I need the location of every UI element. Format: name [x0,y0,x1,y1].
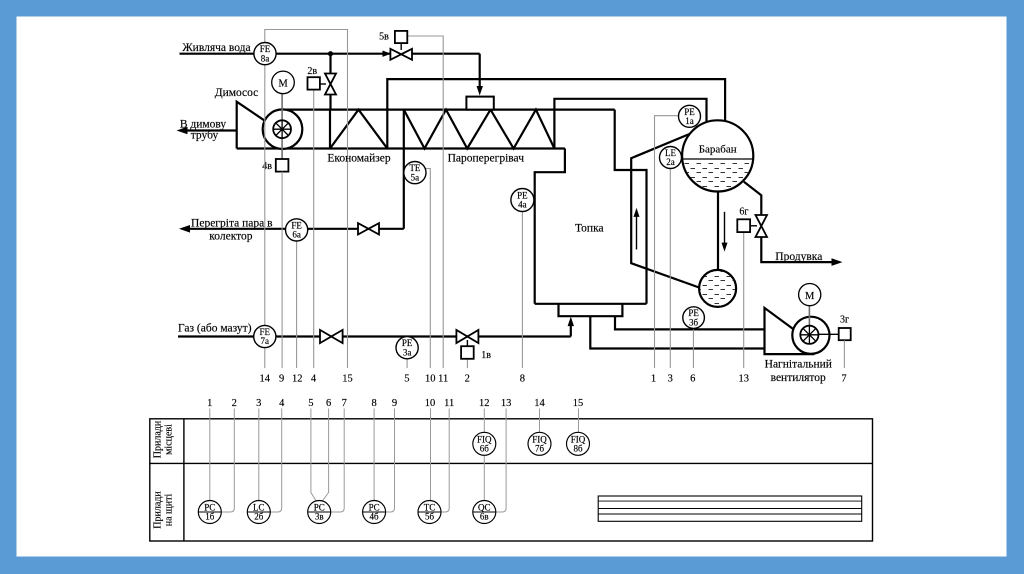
svg-text:4: 4 [311,374,317,385]
svg-text:Пароперегрівач: Пароперегрівач [448,153,525,165]
pipe: steam line lower (superheater to drum) [554,99,706,123]
steam drum Барабан [682,120,753,191]
svg-text:6: 6 [326,398,331,409]
svg-text:3г: 3г [840,315,849,326]
furnace bottom [535,303,647,305]
svg-text:14: 14 [534,398,545,409]
furnace roof right and right wall [615,110,647,304]
svg-text:4: 4 [279,398,285,409]
instrument FIQ 8б [567,432,590,455]
svg-text:1: 1 [651,374,656,385]
signal line 3 (LE 2a to column 3) [669,168,671,369]
svg-text:6г: 6г [739,206,748,217]
motor link line [808,306,810,330]
duct band top line [285,108,614,110]
air duct B (from forced fan) [590,316,765,348]
svg-text:4в: 4в [262,161,272,172]
arrow feed before valve 5в [383,51,392,57]
control valve 5в with actuator [379,31,412,60]
svg-text:5а: 5а [411,172,420,182]
svg-text:3в: 3в [315,512,324,522]
signal line 15 (FE 8a top loop to column 15) [265,30,348,369]
manual valve on gas line [320,330,343,343]
forced draft fan housing [765,308,815,354]
instrument PE 3б [683,307,705,329]
svg-text:12: 12 [292,374,303,385]
signal line 4 (actuator 2в to column 4) [313,90,315,368]
column 6 wire [322,409,329,502]
svg-text:2: 2 [232,398,237,409]
signal line 9 (actuator 4в to column 9) [281,172,283,368]
duct band bottom line [237,147,565,149]
svg-text:12: 12 [479,398,490,409]
svg-text:6в: 6в [480,512,489,522]
signal line 13 (actuator 6г to column 13) [743,232,745,368]
attemperator box on superheater [466,97,493,110]
svg-text:4б: 4б [370,512,380,522]
svg-text:Живляча вода: Живляча вода [182,42,250,54]
arrow blowdown out [832,258,843,266]
svg-text:6б: 6б [480,444,490,454]
svg-text:Перегріта пара в: Перегріта пара в [191,218,273,230]
column 5 wire [311,409,317,502]
svg-text:вентилятор: вентилятор [771,372,826,384]
svg-text:2б: 2б [254,512,264,522]
signal line 11 (valve 5в to column 11) [407,36,443,368]
instrument PE 3a [396,337,418,359]
svg-text:13: 13 [738,374,749,385]
column 12 wire [483,409,485,433]
arrow gas into furnace [568,317,574,327]
pipe: steam line upper (economizer riser to drum) [387,79,725,122]
smoke exhauster housing [237,102,266,149]
svg-text:місцеві: місцеві [164,424,175,455]
svg-text:М: М [805,291,815,302]
svg-text:9: 9 [279,374,284,385]
instrument LC 2б [247,501,270,524]
column 14 wire [539,409,541,433]
svg-text:2в: 2в [307,66,317,77]
instrument PE 4a [511,189,534,212]
instrument FE 7a [254,325,276,347]
pipe: gas line [178,335,571,337]
instrument FIQ 7б [528,432,551,455]
smoke exhauster hub with spokes [273,120,291,138]
column 11 wire [442,409,450,513]
svg-text:на щиті: на щиті [164,494,175,527]
svg-text:2: 2 [465,374,470,385]
svg-text:7б: 7б [535,444,545,454]
svg-text:8: 8 [520,374,525,385]
arrow to chimney [177,127,188,135]
forced draft fan hub with spokes [800,326,818,344]
svg-text:5в: 5в [379,32,389,43]
instrument QC 6в [473,501,496,524]
svg-text:Топка: Топка [575,223,604,235]
svg-text:1б: 1б [205,512,215,522]
downcomer drum to lower drum [717,192,719,271]
duct step down to furnace [535,149,565,304]
manual valve on steam collector line [358,223,379,234]
svg-text:7: 7 [841,374,846,385]
air duct A [615,316,765,329]
instrument TE 5a [404,162,426,184]
column 10 wire [430,409,432,502]
svg-text:11: 11 [438,374,448,385]
arrow feed into attemperator [477,86,483,96]
svg-text:8а: 8а [261,53,270,63]
instrument FE 8a [254,43,276,65]
svg-text:Нагнітальний: Нагнітальний [765,359,832,371]
svg-text:Прилади: Прилади [153,420,164,458]
motor M circle [799,284,821,306]
svg-text:14: 14 [260,374,271,385]
economizer coil [329,110,331,149]
svg-text:Димосос: Димосос [215,87,259,99]
blowdown line through valve 6г [744,182,761,215]
outlet line to 3г [811,333,839,335]
pipe: feed branch through valve 2в [329,54,331,74]
svg-text:3: 3 [668,374,673,385]
svg-text:Економайзер: Економайзер [327,153,391,165]
pipe: gas entry into furnace [570,321,572,337]
svg-text:15: 15 [573,398,584,409]
superheater coil [403,110,405,149]
svg-text:13: 13 [501,398,512,409]
pipe: flue gas to chimney [182,129,237,131]
svg-text:6а: 6а [292,230,301,240]
column 4 wire [271,409,282,513]
junction dot on feed line [328,51,333,56]
control valve 1в with actuator below [456,330,491,361]
signal line 6 (PE 3б to column 6) [692,329,694,368]
lower drum (mud drum) [699,270,736,307]
svg-text:1а: 1а [685,116,694,126]
pipe: feed water line [180,53,391,55]
svg-text:3б: 3б [689,317,699,327]
column 7 wire [331,409,344,513]
svg-text:5: 5 [404,374,409,385]
column 2 wire [222,409,235,513]
instrument LE 2a [660,147,682,169]
column 8 wire [373,409,375,502]
svg-text:2а: 2а [666,157,675,167]
signal line 12 (FE 6a to column 12) [296,241,298,368]
svg-text:1в: 1в [481,350,491,361]
instrument PE 1a [679,105,701,127]
svg-text:М: М [278,79,288,90]
svg-text:7а: 7а [261,336,270,346]
instrument PC 3в [308,501,331,524]
signal line 10 (TE 5a to column 10) [425,169,431,369]
riser channel left wall [631,133,700,288]
svg-text:трубу: трубу [191,130,219,142]
svg-text:Прилади: Прилади [153,491,164,529]
furnace outlet box [559,304,623,316]
signal line 14 (FE 8a / FE 7a to column 14) [264,65,266,368]
svg-text:3: 3 [256,398,261,409]
motor M circle [272,71,295,94]
svg-text:3а: 3а [403,347,412,357]
downcomer down arrow [722,212,728,252]
signal line 7 (actuator 3г to column 7) [843,340,845,368]
smoke exhauster scroll circle [263,109,303,149]
svg-text:Газ (або мазут): Газ (або мазут) [178,323,252,335]
instrument TC 5б [418,501,441,524]
svg-text:6: 6 [690,374,695,385]
signal line 8 (PE 4a to column 8) [521,212,523,369]
svg-text:11: 11 [444,398,454,409]
svg-text:7: 7 [342,398,347,409]
svg-text:Продувка: Продувка [775,251,822,263]
svg-text:15: 15 [342,374,353,385]
control valve 2в with actuator [307,66,336,95]
instrument FE 6a [286,219,308,241]
signal line 5 (PE 3a to column 5) [406,359,408,368]
svg-text:8б: 8б [573,444,583,454]
svg-text:Барабан: Барабан [699,143,737,155]
column 15 wire [578,409,580,433]
svg-text:1: 1 [207,398,212,409]
svg-text:5: 5 [308,398,313,409]
actuator 4в [276,159,289,172]
table frame [150,419,873,541]
svg-text:9: 9 [392,398,397,409]
pipe: superheated steam to collector [184,228,404,230]
svg-text:5б: 5б [425,512,435,522]
instrument PC 4б [363,501,386,524]
svg-text:10: 10 [425,374,436,385]
control valve 6г with actuator left [737,206,767,237]
riser up arrow [634,208,640,250]
arrow steam to collector [179,225,190,233]
signal line 1 (PE 1a to column 1) [655,116,680,368]
instrument FIQ 6б [473,432,496,455]
svg-text:8: 8 [371,398,376,409]
svg-text:колектор: колектор [209,231,253,243]
title strip [598,496,862,521]
column 3 wire [258,409,260,502]
column 9 wire [386,409,395,513]
actuator 3г [839,328,851,340]
signal line 2 (actuator 1в to column 2) [466,359,468,368]
instrument PC 1б [198,501,221,524]
motor link line [281,94,283,159]
svg-text:4а: 4а [518,200,527,210]
svg-text:10: 10 [425,398,436,409]
column 1 wire [209,409,211,502]
column 13 wire [496,409,506,513]
forced draft fan scroll circle [792,317,829,354]
